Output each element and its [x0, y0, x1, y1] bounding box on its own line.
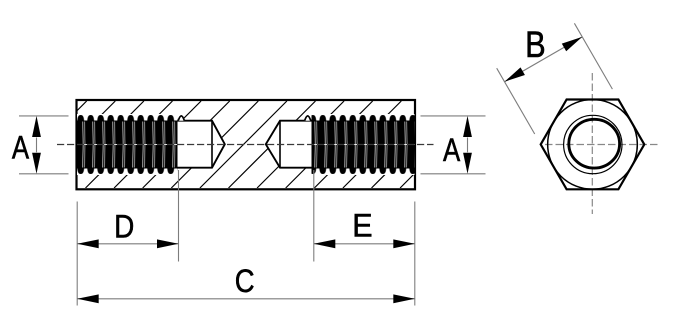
- svg-text:A: A: [443, 133, 461, 168]
- svg-text:D: D: [114, 210, 134, 245]
- svg-text:E: E: [352, 208, 372, 244]
- svg-text:C: C: [235, 264, 255, 300]
- svg-text:A: A: [12, 131, 30, 166]
- svg-text:B: B: [525, 24, 546, 65]
